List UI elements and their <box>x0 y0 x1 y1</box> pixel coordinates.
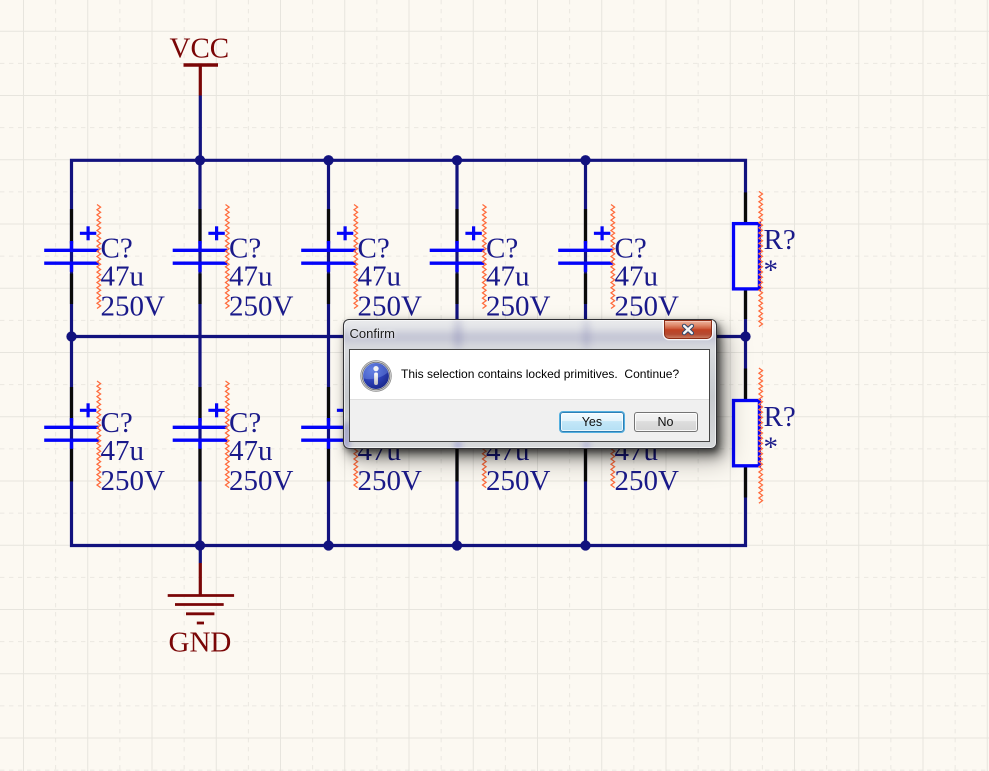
svg-text:250V: 250V <box>615 291 680 323</box>
svg-text:250V: 250V <box>358 291 423 323</box>
svg-text:R?: R? <box>764 401 796 433</box>
svg-text:*: * <box>764 431 779 463</box>
svg-text:250V: 250V <box>486 291 551 323</box>
svg-text:47u: 47u <box>229 435 273 467</box>
svg-text:47u: 47u <box>101 435 145 467</box>
svg-text:250V: 250V <box>229 465 294 497</box>
svg-text:250V: 250V <box>101 465 166 497</box>
svg-text:VCC: VCC <box>170 33 230 65</box>
svg-text:250V: 250V <box>486 465 551 497</box>
svg-text:47u: 47u <box>486 260 530 292</box>
svg-text:47u: 47u <box>101 260 145 292</box>
svg-text:R?: R? <box>764 224 796 256</box>
svg-text:47u: 47u <box>229 260 273 292</box>
svg-text:47u: 47u <box>615 260 659 292</box>
svg-text:GND: GND <box>169 627 232 659</box>
svg-text:250V: 250V <box>358 465 423 497</box>
svg-text:*: * <box>764 255 779 287</box>
svg-text:250V: 250V <box>229 291 294 323</box>
svg-text:250V: 250V <box>101 291 166 323</box>
svg-text:47u: 47u <box>358 260 402 292</box>
svg-text:250V: 250V <box>615 465 680 497</box>
